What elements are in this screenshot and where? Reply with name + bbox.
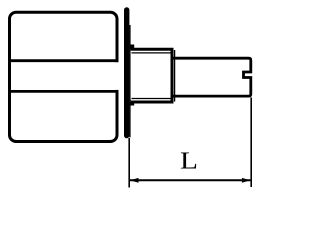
arrowhead left [130,178,139,183]
shaft with slot notch [172,58,251,96]
body divider line 1 [10,59,119,62]
rear cover plate [124,7,129,138]
hub chamfer line right [174,50,176,102]
hub [131,49,172,102]
svg-text:L: L [180,147,198,174]
arrowhead right [242,178,251,183]
washer tick bottom [130,100,134,106]
hub chamfer line bottom [132,98,172,100]
washer tick top [130,45,134,51]
extension line left [128,138,130,188]
body divider line 2 [10,90,119,93]
extension line right [250,98,252,188]
bushing bar [129,25,130,137]
hub chamfer line top [132,52,172,54]
body [10,12,118,141]
dimension line L [130,179,250,181]
body right edge gap (middle band open) [114,62,121,90]
